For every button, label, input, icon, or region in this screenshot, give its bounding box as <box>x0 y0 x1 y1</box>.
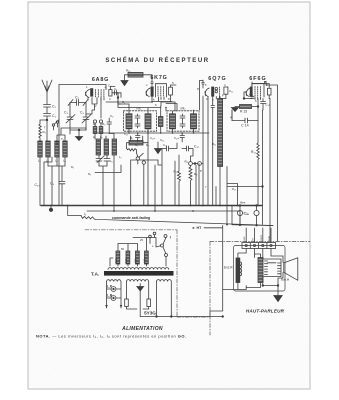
node dot NFB <box>262 186 264 188</box>
socket circle B <box>99 120 102 123</box>
wire 6A8G cathode down <box>92 98 97 111</box>
speaker unit outline box <box>234 246 286 292</box>
wire y160 link <box>131 160 158 206</box>
tube 6K7G grids dashed <box>158 87 164 98</box>
secondary scallops group C <box>157 280 172 282</box>
node dot speaker <box>277 285 279 287</box>
tube pin stubs 6A8G <box>88 98 104 101</box>
box left edge down <box>58 130 60 206</box>
wire R11 top/bottom <box>220 97 226 206</box>
wire R14 right to grid cap <box>143 75 153 86</box>
lamp L.P <box>111 287 116 292</box>
osc section small parts: socket circle A <box>93 120 96 123</box>
capacitor C12 <box>182 146 193 162</box>
wire 6Q7G grid to MF2 <box>200 81 204 111</box>
wire right vertical A (R12 line) <box>257 121 259 144</box>
small cap under MF1 <box>136 133 141 142</box>
wire 6Q7G grid cap <box>202 80 204 88</box>
tube 6K7G cathode bar <box>151 87 153 96</box>
transformer primary scallops <box>108 268 169 270</box>
node dot <box>117 97 119 99</box>
capacitor C9 <box>59 182 65 206</box>
chassis dashed bottom <box>177 316 210 318</box>
capacitor C2 <box>44 114 51 142</box>
resistor R1 zigzag <box>39 124 41 141</box>
capacitor C18 electrolytic <box>237 210 242 215</box>
TE secondary ticks left <box>265 261 268 275</box>
lamp L.B <box>111 296 116 301</box>
tube 6Q7G grid arc <box>205 88 209 97</box>
tube 6Q7G diode plates <box>215 87 217 89</box>
rectifier filament arrow <box>137 284 144 292</box>
wire osc coils top feed <box>106 134 114 140</box>
fuse I4 squiggle <box>81 216 96 220</box>
wire 6Q7G plate down <box>225 94 227 98</box>
tube 6A8G grids dashed <box>96 90 104 98</box>
switch I1 <box>52 124 54 126</box>
padder cap Cp1 <box>96 155 102 166</box>
tube 6F6G envelope box <box>252 84 264 97</box>
node dots 6F6G <box>257 106 259 108</box>
junction dots bus <box>50 205 259 226</box>
lamp circuit wires left <box>107 282 122 309</box>
wires primary taps <box>110 238 166 267</box>
wire L3 down <box>56 157 58 166</box>
resistor R5 horizontal <box>129 141 143 146</box>
secondary scallops group B <box>127 280 149 282</box>
chassis dashed boundary left <box>85 229 177 231</box>
wire heater long y102 <box>106 101 175 103</box>
resistor R7 squiggle <box>127 148 137 153</box>
node dots alim <box>156 316 158 318</box>
5Y3G plate rect B <box>147 299 151 307</box>
wire antenna down <box>46 92 48 104</box>
MF1 secondary coil <box>145 114 151 129</box>
wire to L1 top <box>40 120 47 124</box>
tube 6Q7G cathode bar <box>212 87 214 96</box>
wire commande line right <box>96 219 274 225</box>
primary tap resistors <box>116 251 120 264</box>
wire L4 down <box>64 157 66 166</box>
node dot C2 <box>46 119 48 121</box>
wire C3 C4 to ground <box>70 130 86 134</box>
speaker cone <box>284 258 298 281</box>
capacitor C19 electrolytic <box>254 210 259 215</box>
MF1 trim caps <box>135 114 140 128</box>
transformer core bar T.A. <box>104 271 174 276</box>
wire L2 down <box>47 157 49 166</box>
node dots filter <box>239 205 241 207</box>
resistor R4 <box>93 127 97 134</box>
switch I2 <box>136 157 139 160</box>
speaker terminal strip <box>242 243 276 249</box>
speaker voice coil wires <box>263 273 283 286</box>
ground below R14 <box>121 81 128 86</box>
capacitor C17 <box>261 99 266 111</box>
tuning box outline <box>59 85 106 131</box>
MF2 transformer can dashed <box>167 111 199 131</box>
ground bus main <box>41 205 262 207</box>
padder cap Cp2 <box>104 155 110 166</box>
wire grid cap line <box>70 110 95 134</box>
long wire under MF y133 <box>95 132 209 134</box>
resistor R7 zigzag <box>178 168 181 186</box>
wire MF2 in <box>173 110 194 133</box>
tube pin stubs 6F6G <box>255 97 260 100</box>
resistor R6 between MFs <box>159 117 163 127</box>
wire right vertical B <box>262 110 264 225</box>
capacitor C8 <box>107 118 112 134</box>
capacitor C11 <box>162 146 173 151</box>
capacitor C14 <box>232 110 258 123</box>
wire C5 ends down <box>70 103 86 115</box>
wire x237 drop <box>227 184 238 206</box>
secondary scallops group A <box>107 280 121 282</box>
wire grid2 down <box>100 98 102 119</box>
wire 6F6G top <box>252 82 266 84</box>
resistor R9 zigzag <box>189 165 192 184</box>
wires into strip from top <box>246 228 271 243</box>
output transformer TE primary <box>258 258 263 283</box>
wire R6 <box>160 106 162 133</box>
capacitor C16 <box>251 97 255 99</box>
oscillator coil Lb <box>104 139 108 155</box>
wire 6Q7G cathode <box>203 96 213 206</box>
MF2 primary coil <box>170 114 176 129</box>
wires field coil <box>223 253 247 290</box>
coil L2 <box>46 141 50 157</box>
tube 6K7G envelope box <box>156 84 167 97</box>
oscillator coil La <box>96 139 100 155</box>
potentiometer circles <box>189 162 193 166</box>
wire right vertical C <box>268 99 271 242</box>
wire 6Q7G plate to C14 line <box>231 110 233 121</box>
wires below strip <box>246 249 283 263</box>
mains cord circles <box>149 235 152 238</box>
tube 6A8G envelope <box>85 89 89 97</box>
MF2 secondary coil <box>191 114 197 129</box>
wire R15 left + ground <box>232 107 240 112</box>
wire osc links <box>95 123 101 139</box>
capacitor C7 right of tube <box>115 91 122 98</box>
field coil turns <box>240 262 242 276</box>
wire commande line left <box>68 206 81 216</box>
capacitor C13 <box>211 103 215 112</box>
HT secondary wires right <box>157 282 172 317</box>
chassis dashed vertical <box>176 230 178 317</box>
ground in box <box>76 134 83 141</box>
oscillator coil Lc <box>112 139 116 155</box>
wire L1 down to bus <box>39 157 41 206</box>
ground arrow mid <box>155 142 162 154</box>
tube 6Q7G anode <box>224 87 228 94</box>
filter wire top y205.5 <box>225 205 262 207</box>
wire R14 left end <box>125 75 129 80</box>
variable capacitor C4 <box>82 114 91 130</box>
coil L4 <box>63 141 67 157</box>
wire R5 ends <box>127 136 149 148</box>
small cap under MF2 <box>180 133 185 142</box>
tube 6Q7G grid dashed <box>218 87 220 97</box>
mains switch I <box>164 235 167 238</box>
antenna <box>42 80 52 92</box>
wire plate node down <box>118 93 121 104</box>
wire mid NFB y186 <box>227 167 263 225</box>
wire bus2 y211 <box>87 210 240 212</box>
coil L1 <box>38 141 42 157</box>
wire grid link y166 <box>48 166 65 181</box>
TE center tap line <box>268 262 277 264</box>
wire filter bottom y224.5 <box>232 206 273 226</box>
wire avc verticals <box>131 133 148 206</box>
MF1 primary coil <box>126 114 132 129</box>
wire aux left <box>44 157 52 162</box>
TE secondary ticks right <box>278 263 281 274</box>
variable capacitor C3 <box>66 114 75 130</box>
output transformer TE core box <box>264 259 282 277</box>
tube pin stubs 6K7G <box>161 97 164 100</box>
capacitor C5 variable padder <box>68 100 88 106</box>
wire 6A8G plate out <box>106 87 118 93</box>
coil L3 <box>55 141 59 157</box>
wire R15 right <box>252 99 259 121</box>
tube 6F6G cathode bar <box>250 87 252 96</box>
wire avc lower links <box>155 143 199 211</box>
wire 6F6G grid in <box>244 92 252 99</box>
wire right vertical D <box>266 82 278 242</box>
resistor R5 <box>99 127 103 134</box>
scatter pin labels <box>71 83 268 251</box>
wire diode return <box>212 112 214 206</box>
+HT wire <box>204 225 223 316</box>
wire bus2 drop at240 <box>239 211 241 225</box>
wire 6K7G plate up-right <box>171 85 177 102</box>
tube 6A8G cathode bar <box>91 89 93 97</box>
wire L-tops link <box>57 128 86 141</box>
bar right terminal <box>170 272 174 276</box>
left verticals to bus <box>44 162 52 206</box>
trimmer arrow <box>97 156 104 163</box>
resistor R11 tall <box>218 99 223 167</box>
wire osc bottom <box>95 155 121 211</box>
tube 6K7G grid arc <box>146 88 150 97</box>
wire 6F6G plate <box>252 84 269 99</box>
tube 6A8G anode <box>109 90 112 96</box>
wire 6K7G cathode down <box>152 96 177 111</box>
MF2 trim caps <box>180 114 185 128</box>
resistor R12 squiggle <box>257 143 259 206</box>
speaker dashed top <box>210 241 310 243</box>
resistor R15 <box>240 105 252 109</box>
5Y3G wires <box>127 282 149 317</box>
wire x216 drop <box>215 187 217 206</box>
tube pin stubs 6Q7G <box>216 97 219 100</box>
tube 6K7G anode <box>169 87 173 95</box>
tube 6F6G anode <box>268 88 272 95</box>
tube 6F6G grids dashed <box>255 87 260 98</box>
wire MF1 in <box>118 93 148 133</box>
speaker dashed vertical <box>209 242 211 336</box>
bottom wire to speaker <box>140 316 223 318</box>
ground bus earth drop <box>50 206 52 209</box>
field coil EXC <box>236 258 240 283</box>
capacitor C1 <box>44 105 51 114</box>
5Y3G plate rect A <box>125 299 129 307</box>
tube 6F6G grid arc <box>246 88 250 97</box>
MF1 transformer can dashed <box>124 111 157 131</box>
resistor R14 top <box>128 73 143 78</box>
node osc grid <box>78 129 80 131</box>
wires output transformer <box>246 254 263 288</box>
wire heater long y107.5 <box>118 102 175 111</box>
speaker ground <box>274 286 282 302</box>
